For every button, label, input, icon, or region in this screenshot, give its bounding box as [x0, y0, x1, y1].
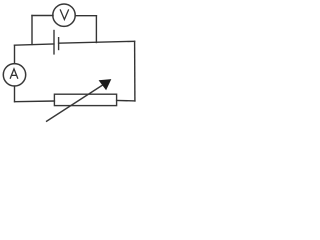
wire bottom right	[117, 100, 135, 102]
variable resistor arrow shaft	[46, 85, 103, 122]
wire left vertical lower	[14, 86, 16, 102]
voltmeter V	[53, 4, 75, 26]
wire top-branch right horizontal	[75, 15, 96, 17]
wire left vertical upper	[14, 45, 16, 63]
ammeter A	[3, 64, 25, 86]
wire bottom left	[15, 100, 55, 103]
wire battery row left	[15, 44, 54, 45]
wire top-branch left horizontal	[32, 15, 53, 17]
wire battery row right	[59, 41, 135, 43]
wire top-branch left vertical	[31, 16, 33, 45]
variable resistor R1 body	[54, 94, 116, 105]
battery cell B1	[54, 30, 59, 55]
variable resistor arrowhead	[99, 79, 112, 90]
wire top-branch right vertical (junction to battery row)	[95, 16, 97, 43]
wire right vertical	[134, 41, 136, 101]
